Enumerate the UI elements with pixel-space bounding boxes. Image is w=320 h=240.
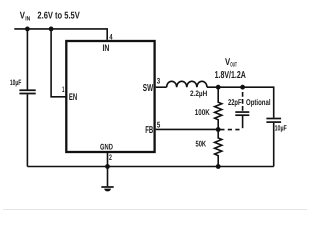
svg-text:10µF: 10µF	[275, 124, 287, 133]
svg-text:2: 2	[109, 153, 112, 162]
svg-text:1: 1	[62, 85, 65, 94]
svg-text:2.2µH: 2.2µH	[190, 89, 207, 98]
svg-text:10µF: 10µF	[10, 78, 22, 87]
svg-text:OUT: OUT	[230, 62, 237, 69]
svg-text:1.8V/1.2A: 1.8V/1.2A	[215, 70, 246, 81]
svg-text:5: 5	[157, 119, 161, 129]
svg-text:EN: EN	[69, 92, 77, 103]
svg-text:Optional: Optional	[246, 97, 271, 107]
svg-text:50K: 50K	[196, 139, 207, 149]
svg-text:4: 4	[109, 32, 113, 41]
svg-text:22pF: 22pF	[228, 97, 242, 107]
svg-text:FB: FB	[145, 125, 153, 136]
svg-text:IN: IN	[103, 43, 110, 54]
svg-text:GND: GND	[100, 143, 113, 152]
svg-text:100K: 100K	[195, 107, 210, 117]
svg-text:SW: SW	[143, 83, 154, 94]
svg-text:IN: IN	[25, 15, 30, 22]
svg-text:3: 3	[157, 77, 161, 86]
svg-text:2.6V to 5.5V: 2.6V to 5.5V	[37, 11, 80, 22]
